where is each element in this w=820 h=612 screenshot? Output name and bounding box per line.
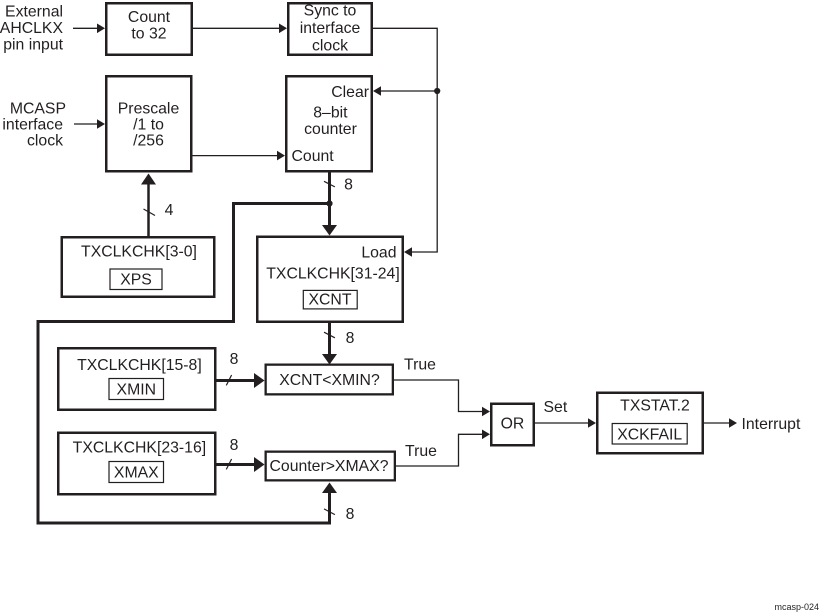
- block: TXCLKCHK[3-0] XPS: [62, 237, 215, 297]
- svg-text:interface: interface: [2, 117, 63, 134]
- svg-text:clock: clock: [27, 133, 63, 150]
- svg-text:Sync to: Sync to: [304, 3, 357, 20]
- svg-text:OR: OR: [501, 416, 525, 433]
- wire: Load output bus (8) to XCNT<XMIN comparator: [322, 323, 355, 365]
- wire: counter output bus (8) down to Load: [322, 173, 353, 236]
- wire: AHCLKX input arrow: [73, 24, 105, 34]
- svg-text:Prescale: Prescale: [118, 101, 180, 118]
- wire: XPS to Prescale, 4-bit bus: [141, 174, 174, 237]
- label: MCASP interface clock: [2, 101, 66, 150]
- svg-text:/1 to: /1 to: [133, 117, 164, 134]
- svg-text:mcasp-024: mcasp-024: [774, 602, 819, 612]
- svg-text:8: 8: [346, 506, 355, 523]
- svg-text:TXCLKCHK[15-8]: TXCLKCHK[15-8]: [77, 357, 202, 374]
- svg-text:XCNT<XMIN?: XCNT<XMIN?: [279, 372, 380, 389]
- svg-text:Count: Count: [128, 9, 171, 26]
- svg-text:Count: Count: [292, 148, 335, 165]
- svg-text:8: 8: [230, 351, 239, 368]
- svg-text:to 32: to 32: [131, 26, 166, 43]
- wire: Prescale output to Count input: [193, 151, 286, 161]
- wire: XMIN bus (8) to comparator: [217, 351, 265, 388]
- label: External AHCLKX pin input: [0, 4, 64, 54]
- svg-text:8: 8: [344, 177, 353, 194]
- svg-text:4: 4: [165, 202, 174, 219]
- svg-text:8–bit: 8–bit: [313, 105, 348, 122]
- node: junction on Sync rail at Clear branch: [434, 88, 440, 94]
- block: OR gate: [491, 404, 534, 446]
- svg-text:XCKFAIL: XCKFAIL: [617, 426, 682, 443]
- svg-text:TXCLKCHK[31-24]: TXCLKCHK[31-24]: [266, 265, 399, 282]
- block: comparator XCNT<XMIN?: [266, 365, 393, 395]
- svg-text:XMAX: XMAX: [114, 465, 159, 482]
- svg-text:Clear: Clear: [331, 84, 369, 101]
- svg-text:Counter>XMAX?: Counter>XMAX?: [270, 458, 389, 475]
- wire: Sync output rail to Clear and Load: [373, 28, 437, 256]
- svg-text:MCASP: MCASP: [10, 101, 66, 118]
- svg-text:Load: Load: [361, 245, 396, 262]
- svg-text:/256: /256: [133, 133, 164, 150]
- block: Sync to interface clock: [288, 3, 372, 55]
- svg-text:8: 8: [346, 330, 355, 347]
- svg-text:True: True: [405, 443, 437, 460]
- block: TXSTAT.2 XCKFAIL: [597, 393, 703, 454]
- wire: XMAX bus (8) to comparator: [217, 437, 265, 472]
- wire: Count-to-32 output to Sync: [193, 24, 287, 34]
- svg-text:TXCLKCHK[3-0]: TXCLKCHK[3-0]: [81, 244, 197, 261]
- block: comparator Counter>XMAX?: [266, 452, 395, 481]
- wire: OR output (Set) to TXSTAT: [535, 399, 596, 428]
- svg-text:XCNT: XCNT: [308, 291, 351, 308]
- wire: True output of XCNT<XMIN to OR: [394, 357, 490, 417]
- svg-text:8: 8: [230, 437, 239, 454]
- svg-text:clock: clock: [312, 38, 348, 55]
- wire: counter bus branch to left rail and around to XMAX comparator: [38, 204, 355, 524]
- svg-text:TXCLKCHK[23-16]: TXCLKCHK[23-16]: [73, 440, 206, 457]
- svg-text:Set: Set: [544, 399, 568, 416]
- svg-text:True: True: [404, 357, 436, 374]
- wire: MCASP input arrow: [74, 119, 105, 129]
- svg-text:Interrupt: Interrupt: [742, 416, 801, 433]
- wire: Interrupt output: [704, 416, 801, 433]
- block: Load TXCLKCHK[31-24] XCNT: [257, 237, 403, 322]
- block: TXCLKCHK[23-16] XMAX: [58, 433, 215, 495]
- svg-text:interface: interface: [300, 20, 361, 37]
- block: Prescale /1 to /256: [106, 76, 191, 171]
- svg-text:counter: counter: [304, 121, 357, 138]
- svg-text:External: External: [5, 4, 63, 21]
- block: TXCLKCHK[15-8] XMIN: [58, 348, 215, 410]
- node: junction of counter bus and left rail: [326, 200, 332, 206]
- svg-text:pin input: pin input: [3, 37, 63, 54]
- wire: True output of Counter>XMAX to OR: [396, 430, 490, 467]
- svg-text:XPS: XPS: [120, 272, 152, 289]
- block: 8-bit counter: [286, 76, 372, 171]
- svg-text:AHCLKX: AHCLKX: [0, 20, 63, 37]
- block: Count to 32: [106, 3, 192, 55]
- svg-text:XMIN: XMIN: [117, 382, 157, 399]
- svg-text:TXSTAT.2: TXSTAT.2: [620, 398, 690, 415]
